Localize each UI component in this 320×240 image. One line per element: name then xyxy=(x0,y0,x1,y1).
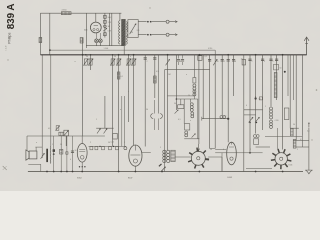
svg-text:4 310: 4 310 xyxy=(222,116,226,118)
svg-text:2: 2 xyxy=(250,149,251,151)
svg-text:0,25: 0,25 xyxy=(111,142,114,144)
svg-text:50: 50 xyxy=(75,150,77,152)
svg-text:2: 2 xyxy=(90,142,91,144)
svg-text:125: 125 xyxy=(137,30,140,32)
svg-text:0,1: 0,1 xyxy=(48,128,50,130)
svg-text:50: 50 xyxy=(280,68,282,70)
svg-text:Philips: Philips xyxy=(6,32,11,44)
svg-text:5: 5 xyxy=(264,61,265,63)
svg-text:50: 50 xyxy=(146,109,148,111)
svg-text:4: 4 xyxy=(70,159,71,161)
svg-text:50: 50 xyxy=(114,56,116,58)
svg-text:2: 2 xyxy=(147,61,148,63)
svg-text:1: 1 xyxy=(297,149,298,151)
svg-text:1: 1 xyxy=(96,119,97,121)
svg-text:1.11.38: 1.11.38 xyxy=(6,45,8,50)
svg-text:10: 10 xyxy=(241,58,243,60)
svg-text:1: 1 xyxy=(52,144,53,146)
svg-text:50: 50 xyxy=(217,61,219,63)
svg-text:220: 220 xyxy=(130,32,133,34)
svg-text:50: 50 xyxy=(259,99,261,101)
svg-text:839 A: 839 A xyxy=(6,4,17,30)
svg-text:50: 50 xyxy=(174,103,176,105)
svg-text:E447: E447 xyxy=(128,177,132,179)
svg-text:1 506: 1 506 xyxy=(104,48,109,50)
svg-text:4: 4 xyxy=(223,149,224,151)
svg-text:5: 5 xyxy=(160,147,161,149)
svg-text:4: 4 xyxy=(235,61,236,63)
svg-text:2: 2 xyxy=(273,61,274,63)
svg-text:50: 50 xyxy=(60,144,62,146)
svg-text:E446: E446 xyxy=(289,165,293,167)
svg-text:0,1: 0,1 xyxy=(178,119,181,121)
svg-text:50: 50 xyxy=(293,124,295,126)
svg-text:E452: E452 xyxy=(77,177,81,179)
svg-text:0,1: 0,1 xyxy=(121,76,124,78)
svg-text:1: 1 xyxy=(124,142,125,144)
svg-text:6: 6 xyxy=(180,61,181,63)
svg-text:4 310: 4 310 xyxy=(208,48,212,50)
svg-text:0,1: 0,1 xyxy=(205,56,208,58)
svg-text:2: 2 xyxy=(252,61,253,63)
svg-text:4 310: 4 310 xyxy=(275,120,279,122)
svg-text:50: 50 xyxy=(188,95,190,97)
svg-text:50: 50 xyxy=(108,142,110,144)
svg-text:50: 50 xyxy=(210,149,212,151)
svg-text:4: 4 xyxy=(128,91,129,93)
svg-text:1: 1 xyxy=(224,61,225,63)
svg-text:4 350: 4 350 xyxy=(62,10,68,12)
svg-text:4: 4 xyxy=(246,105,247,107)
svg-text:0,5: 0,5 xyxy=(156,71,159,73)
svg-text:1: 1 xyxy=(265,106,266,108)
svg-text:E443: E443 xyxy=(228,177,232,179)
svg-text:0,1: 0,1 xyxy=(300,139,303,141)
svg-text:50: 50 xyxy=(86,56,88,58)
